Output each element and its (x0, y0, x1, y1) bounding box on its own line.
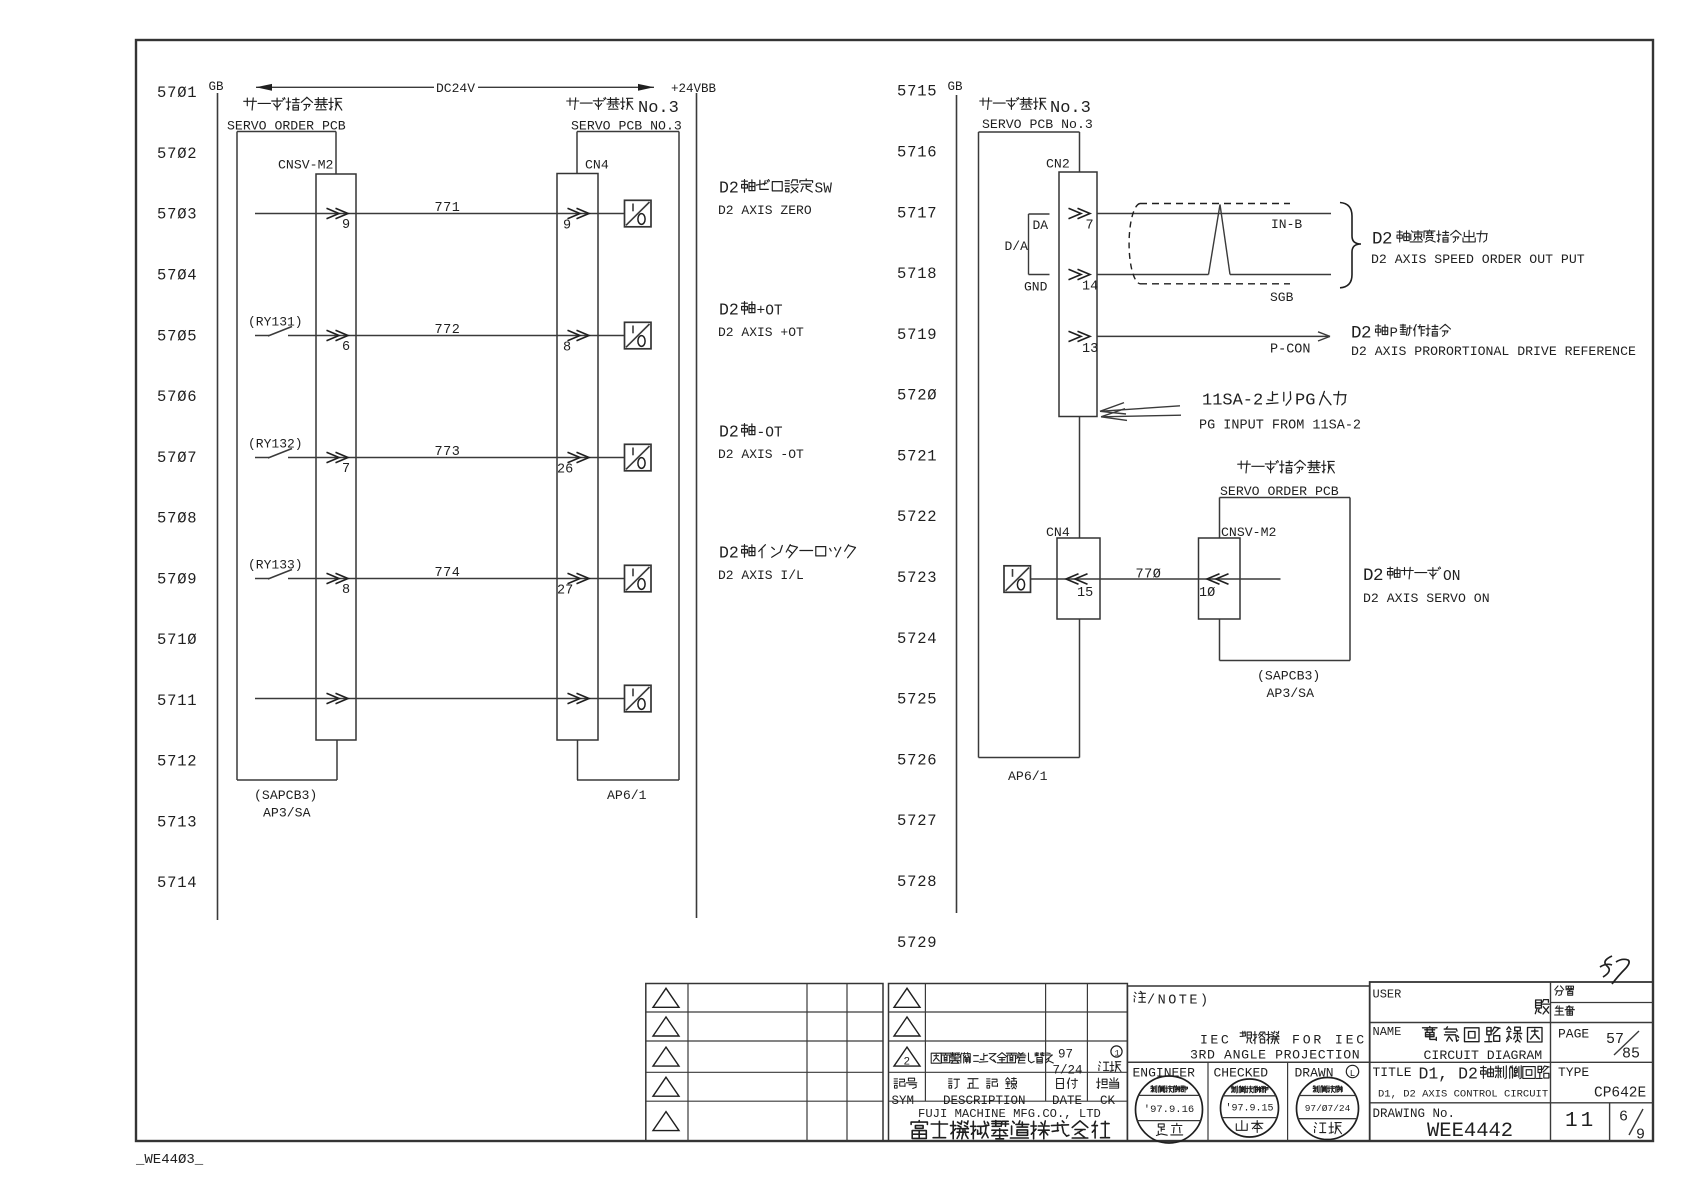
connector CNSV-M2 box (left) (316, 174, 356, 740)
board outline SAPCB3 AP3/SA (237, 132, 337, 781)
svg-text:DA: DA (1033, 218, 1049, 233)
header date (jp) (1057, 1078, 1078, 1089)
svg-text:DESCRIPTION: DESCRIPTION (943, 1094, 1026, 1108)
svg-text:2: 2 (904, 1057, 911, 1069)
svg-text:11SA-2: 11SA-2 (1202, 392, 1263, 411)
svg-text:97: 97 (1058, 1048, 1073, 1062)
svg-text:27: 27 (557, 584, 573, 599)
svg-text:(RY131): (RY131) (248, 315, 303, 330)
title name (jp) (1423, 1027, 1543, 1043)
board outline SAPCB3 right (1220, 498, 1351, 661)
svg-text:1Ø: 1Ø (1199, 586, 1215, 601)
type CP642E (1594, 1086, 1646, 1102)
svg-text:FOR IEC: FOR IEC (1292, 1033, 1367, 1048)
label D2 AXIS SERVO ON (1363, 591, 1490, 606)
svg-text:8: 8 (563, 341, 571, 356)
svg-text:D2 AXIS SPEED ORDER OUT PUT: D2 AXIS SPEED ORDER OUT PUT (1371, 252, 1585, 267)
label P-CON (1270, 343, 1311, 358)
label GND (1024, 280, 1048, 295)
connector CNSV-M2 label (left) (278, 158, 333, 173)
svg-text:14: 14 (1082, 280, 1098, 295)
svg-text:P-CON: P-CON (1270, 343, 1311, 358)
connector CN4 box (left half) (557, 174, 598, 741)
I/O symbol row y213 (625, 200, 652, 227)
svg-text:773: 773 (435, 445, 461, 460)
label AP3/SA (263, 806, 311, 821)
svg-text:CHECKED: CHECKED (1214, 1066, 1269, 1081)
title CIRCUIT DIAGRAM (1424, 1048, 1543, 1063)
pin 6 (CNSV-M2) (342, 340, 350, 355)
svg-text:6: 6 (342, 340, 350, 355)
label AP6/1 (left half) (607, 788, 647, 803)
svg-text:3RD ANGLE PROJECTION: 3RD ANGLE PROJECTION (1190, 1048, 1360, 1063)
svg-text:5717: 5717 (897, 204, 937, 222)
function label D2 AXIS +OT (719, 301, 783, 320)
revision triangle L2 (653, 1017, 679, 1036)
svg-text:ENGINEER: ENGINEER (1133, 1066, 1196, 1081)
field DRAWING No. (1373, 1107, 1456, 1121)
label servo order pcb (jp) right (1238, 460, 1335, 473)
pin 9 (CN4) (563, 219, 571, 234)
header SYM (892, 1094, 915, 1108)
label (SAPCB3) (254, 788, 317, 803)
pin 14 (CN2) (1082, 280, 1098, 295)
connector CN2 box (1059, 172, 1097, 417)
svg-text:NAME: NAME (1373, 1025, 1402, 1039)
svg-text:8: 8 (342, 583, 350, 598)
wire SGB row (1097, 274, 1331, 276)
signature columns (1208, 1062, 1288, 1141)
svg-text:'97.9.15: '97.9.15 (1225, 1103, 1273, 1115)
svg-text:No.3: No.3 (638, 99, 679, 118)
wire row y698 (255, 698, 625, 700)
label D/A (1005, 239, 1029, 254)
svg-text:SW: SW (815, 182, 833, 198)
svg-text:AP6/1: AP6/1 (607, 788, 647, 803)
svg-text:D2: D2 (719, 179, 739, 198)
svg-text:GND: GND (1024, 280, 1048, 295)
arrow into CN4 row y213 (568, 208, 590, 218)
page 57/85 (1606, 1031, 1640, 1063)
D/A converter bracket (1029, 214, 1050, 275)
svg-text:D2: D2 (719, 544, 739, 563)
svg-text:+OT: +OT (757, 304, 783, 320)
svg-text:PG INPUT FROM 11SA-2: PG INPUT FROM 11SA-2 (1199, 419, 1361, 434)
header SYM (jp) (894, 1078, 917, 1088)
svg-text:57Ø4: 57Ø4 (157, 267, 197, 285)
wire row y457 left segment (288, 457, 625, 459)
arrow into CN4 row y698 (568, 693, 590, 703)
arrow pin13 CN2 (1069, 331, 1091, 341)
note label (jp) (1134, 991, 1211, 1008)
label D2 axis servo ON (jp) (1363, 566, 1460, 586)
drawn circled-L (1346, 1065, 1358, 1079)
svg-text:'97.9.16: '97.9.16 (1144, 1104, 1194, 1116)
svg-text:CN2: CN2 (1046, 157, 1070, 172)
label SGB (1270, 290, 1294, 305)
arrow into CN4 row y457 (568, 452, 590, 462)
sheet code _WE4403_ (135, 1152, 204, 1168)
svg-text:6: 6 (1619, 1109, 1628, 1126)
title jp (1419, 1065, 1550, 1084)
svg-text:1: 1 (1115, 1049, 1120, 1059)
svg-text:TITLE: TITLE (1373, 1065, 1412, 1080)
field USER (1373, 988, 1402, 1002)
pin 8 (CNSV-M2) (342, 583, 350, 598)
wire row y578 left segment (288, 578, 625, 580)
revision triangle L5 (653, 1112, 679, 1131)
field bunsho (jp) (1555, 986, 1574, 996)
field PAGE (1558, 1027, 1589, 1042)
node GB left label (209, 80, 225, 94)
company FUJI MACHINE MFG.CO., LTD (918, 1107, 1101, 1121)
wire P-CON (1097, 335, 1330, 337)
svg-text:GB: GB (948, 80, 964, 94)
relay contact (RY132) (255, 449, 292, 459)
svg-text:SERVO PCB No.3: SERVO PCB No.3 (982, 117, 1093, 132)
header DESCRIPTION (943, 1094, 1026, 1108)
left line-number column 5701-5714 (157, 84, 197, 892)
pin 8 (CN4) (563, 341, 571, 356)
label SERVO ORDER PCB right (1220, 484, 1339, 499)
svg-text:PAGE: PAGE (1558, 1027, 1589, 1042)
revision triangle L3 (653, 1047, 679, 1066)
svg-text:IEC: IEC (1200, 1033, 1231, 1048)
svg-text:9: 9 (1636, 1127, 1645, 1144)
GB bus right vertical wire (956, 95, 958, 913)
svg-text:5718: 5718 (897, 265, 937, 283)
svg-text:5714: 5714 (157, 874, 197, 892)
title block frame (1370, 982, 1653, 1141)
svg-text:(SAPCB3): (SAPCB3) (254, 788, 317, 803)
+24VBB rail label (671, 82, 717, 96)
svg-text:771: 771 (435, 201, 461, 216)
svg-text:ON: ON (1443, 569, 1460, 585)
svg-text:D2 AXIS PRORORTIONAL DRIVE REF: D2 AXIS PRORORTIONAL DRIVE REFERENCE (1351, 344, 1636, 359)
label servo-pcb No.3 (Japanese) right (980, 98, 1091, 119)
function label D2 AXIS I/L (719, 544, 856, 563)
svg-text:5723: 5723 (897, 569, 937, 587)
sheet 11 (1565, 1110, 1596, 1133)
pin 7 (CN2) (1086, 219, 1094, 234)
connector CNSV-M2 label (right half) (1221, 525, 1276, 540)
wire row y335 left segment (288, 335, 625, 337)
svg-text:GB: GB (209, 80, 225, 94)
wire number 770 (1136, 568, 1162, 583)
brace speed-order group (1340, 203, 1361, 288)
revision table left (646, 984, 883, 1142)
svg-text:5719: 5719 (897, 326, 937, 344)
revision row 2 CK (jp) (1099, 1062, 1121, 1072)
svg-text:772: 772 (435, 323, 461, 338)
drawing number WEE4442 (1427, 1120, 1513, 1143)
field TYPE (1558, 1065, 1589, 1080)
svg-text:AP3/SA: AP3/SA (263, 806, 311, 821)
relay contact (RY133) label (248, 558, 303, 573)
svg-text:572Ø: 572Ø (897, 387, 937, 405)
svg-text:CNSV-M2: CNSV-M2 (278, 158, 333, 173)
handwritten mark 57 (1600, 956, 1629, 984)
header CHECKED (1214, 1066, 1269, 1081)
svg-text:IN-B: IN-B (1271, 217, 1302, 232)
wire number 773 (435, 445, 461, 460)
svg-text:5727: 5727 (897, 812, 937, 830)
svg-text:AP6/1: AP6/1 (1008, 769, 1048, 784)
svg-text:CN4: CN4 (585, 158, 609, 173)
svg-text:D2: D2 (719, 301, 739, 320)
svg-text:USER: USER (1373, 988, 1402, 1002)
svg-text:D1, D2 AXIS CONTROL CIRCUIT: D1, D2 AXIS CONTROL CIRCUIT (1378, 1089, 1548, 1101)
svg-text:D2: D2 (1351, 324, 1371, 344)
revision row 2 description (jp) (931, 1053, 1053, 1064)
svg-text:WEE4442: WEE4442 (1427, 1120, 1513, 1143)
svg-text:7/24: 7/24 (1053, 1064, 1083, 1078)
svg-text:5721: 5721 (897, 447, 937, 465)
field seiban (jp) (1555, 1006, 1575, 1016)
svg-text:57Ø1: 57Ø1 (157, 84, 197, 102)
note box (1127, 986, 1369, 1141)
svg-text:9: 9 (563, 219, 571, 234)
svg-text:P: P (1390, 326, 1398, 342)
cable shield (dashed) (1129, 204, 1290, 284)
label PG INPUT FROM 11SA-2 (1199, 419, 1361, 434)
label AP6/1 (right half) (1008, 769, 1048, 784)
right line-number column 5715-5729 (897, 83, 937, 952)
field NAME (1373, 1025, 1402, 1039)
label 11SA-2 yori PG input (jp) (1202, 391, 1346, 410)
DC24V label (436, 81, 475, 96)
I/O symbol row y698 (625, 685, 652, 712)
svg-text:FUJI MACHINE MFG.CO., LTD: FUJI MACHINE MFG.CO., LTD (918, 1107, 1101, 1121)
svg-text:D2: D2 (1363, 566, 1383, 586)
svg-text:CP642E: CP642E (1594, 1086, 1646, 1102)
revision table main (889, 984, 1128, 1142)
svg-text:D2 AXIS SERVO ON: D2 AXIS SERVO ON (1363, 591, 1490, 606)
relay contact (RY131) label (248, 315, 303, 330)
sheet 6/9 (1619, 1109, 1645, 1144)
note IEC line (1200, 1031, 1367, 1047)
svg-text:774: 774 (435, 566, 461, 581)
arrow pin15 CN4 (left-pointing) (1066, 574, 1088, 584)
function label D2 AXIS ZERO (en) (718, 203, 812, 218)
label IN-B (1271, 217, 1302, 232)
arrow into CNSV-M2 row y457 (327, 452, 349, 462)
svg-text:5715: 5715 (897, 83, 937, 101)
svg-text:13: 13 (1082, 342, 1098, 357)
header DATE (1052, 1094, 1082, 1108)
wire number 771 (435, 201, 461, 216)
label D2 AXIS PRORORTIONAL DRIVE REFERENCE (1351, 344, 1636, 359)
wire IN-B row (1097, 213, 1331, 215)
connector CN2 label (1046, 157, 1070, 172)
svg-text:D2 AXIS -OT: D2 AXIS -OT (718, 447, 804, 462)
svg-text:26: 26 (557, 463, 573, 478)
svg-text:/NOTE): /NOTE) (1147, 994, 1211, 1009)
relay contact (RY131) (255, 327, 292, 337)
stamp CHECKED (1221, 1079, 1279, 1137)
svg-text:7: 7 (1086, 219, 1094, 234)
svg-text:TYPE: TYPE (1558, 1065, 1589, 1080)
svg-text:5724: 5724 (897, 630, 937, 648)
svg-text:DC24V: DC24V (436, 81, 475, 96)
label DA (1033, 218, 1049, 233)
svg-text:D2: D2 (719, 423, 739, 442)
GB bus left vertical wire (217, 93, 219, 920)
svg-text:AP3/SA: AP3/SA (1267, 686, 1315, 701)
+24VBB rail vertical wire (696, 93, 698, 918)
connector CN4 box (right half) (1057, 538, 1100, 619)
arrow into CNSV-M2 row y578 (327, 573, 349, 583)
label (SAPCB3) right (1257, 669, 1320, 684)
arrow into CNSV-M2 row y698 (327, 693, 349, 703)
svg-text:57Ø3: 57Ø3 (157, 206, 197, 224)
pin 27 (CN4) (557, 584, 573, 599)
svg-text:D/A: D/A (1005, 239, 1029, 254)
svg-text:57Ø6: 57Ø6 (157, 388, 197, 406)
svg-text:57Ø9: 57Ø9 (157, 570, 197, 588)
svg-text:11: 11 (1565, 1110, 1596, 1133)
header DRAWN (1295, 1066, 1334, 1081)
stamp ENGINEER (1136, 1076, 1203, 1143)
svg-text:SGB: SGB (1270, 290, 1294, 305)
relay contact (RY133) (255, 570, 292, 580)
pin 26 (CN4) (557, 463, 573, 478)
label SERVO PCB No.3 right (982, 117, 1093, 132)
pin 13 (CN2) (1082, 342, 1098, 357)
svg-text:57Ø7: 57Ø7 (157, 449, 197, 467)
pin 15 (CN4) (1077, 586, 1093, 601)
label servo-order-pcb (Japanese) (244, 97, 342, 110)
I/O symbol row y457 (625, 444, 652, 471)
arrow into CNSV-M2 row y335 (327, 330, 349, 340)
arrow pin10 CNSV-M2 (left-pointing) (1207, 574, 1229, 584)
connector CN4 label (right half) (1046, 525, 1070, 540)
svg-text:+24VBB: +24VBB (671, 82, 717, 96)
svg-text:D1, D2: D1, D2 (1419, 1065, 1478, 1084)
arrow into CN4 row y335 (568, 330, 590, 340)
field tono (jp) (1535, 1000, 1549, 1014)
svg-text:57Ø2: 57Ø2 (157, 145, 197, 163)
PG input arrows (1100, 403, 1181, 421)
function label D2 AXIS -OT (en) (718, 447, 804, 462)
arrow pin14 CN2 (1069, 269, 1091, 279)
svg-text:_WE44Ø3_: _WE44Ø3_ (135, 1152, 204, 1168)
wire 770 segment A (1031, 578, 1058, 580)
arrow into CNSV-M2 row y213 (327, 208, 349, 218)
svg-text:CK: CK (1100, 1094, 1116, 1108)
svg-text:D2 AXIS I/L: D2 AXIS I/L (718, 568, 804, 583)
pin 10 (CNSV-M2) (1199, 586, 1215, 601)
wire 770 segment B (1057, 578, 1281, 580)
svg-text:7: 7 (342, 462, 350, 477)
svg-text:D2 AXIS +OT: D2 AXIS +OT (718, 325, 804, 340)
svg-text:5729: 5729 (897, 934, 937, 952)
DC24V span arrow (256, 84, 654, 91)
svg-text:DRAWING No.: DRAWING No. (1373, 1107, 1456, 1121)
header ENGINEER (1133, 1066, 1196, 1081)
function label D2 AXIS ZERO (719, 179, 832, 198)
svg-text:No.3: No.3 (1050, 99, 1091, 118)
svg-text:15: 15 (1077, 586, 1093, 601)
I/O symbol row y578 (625, 565, 652, 592)
svg-text:5726: 5726 (897, 751, 937, 769)
label D2 axis speed order (jp) (1372, 230, 1487, 250)
label D2 AXIS SPEED ORDER OUT PUT (1371, 252, 1585, 267)
revision triangle 2 (894, 1047, 920, 1069)
twisted-pair crossover symbol (1209, 205, 1231, 275)
node GB right label (948, 80, 964, 94)
I/O symbol servo-on (1004, 566, 1031, 593)
label AP3/SA right (1267, 686, 1315, 701)
svg-text:57Ø5: 57Ø5 (157, 327, 197, 345)
pin 7 (CNSV-M2) (342, 462, 350, 477)
svg-text:(RY132): (RY132) (248, 437, 303, 452)
company name (jp) (911, 1121, 1109, 1139)
header description (jp) (949, 1078, 1017, 1089)
connector CN4 label (left half) (585, 158, 609, 173)
pin 9 (CNSV-M2) (342, 218, 350, 233)
relay contact (RY132) label (248, 437, 303, 452)
wire number 774 (435, 566, 461, 581)
svg-text:CIRCUIT DIAGRAM: CIRCUIT DIAGRAM (1424, 1048, 1543, 1063)
function label D2 AXIS -OT (719, 423, 783, 442)
svg-text:77Ø: 77Ø (1136, 568, 1162, 583)
svg-text:DATE: DATE (1052, 1094, 1082, 1108)
svg-text:PG: PG (1295, 392, 1315, 411)
svg-text:5722: 5722 (897, 508, 937, 526)
field TITLE (1373, 1065, 1412, 1080)
revision triangle M1 (894, 988, 920, 1007)
svg-text:5716: 5716 (897, 144, 937, 162)
svg-text:57Ø8: 57Ø8 (157, 510, 197, 528)
stamp DRAWN (1297, 1078, 1359, 1140)
svg-text:-OT: -OT (757, 426, 783, 442)
header CK (jp) (1097, 1078, 1119, 1089)
label servo-pcb (Japanese) left-half (567, 98, 679, 119)
svg-text:5711: 5711 (157, 692, 197, 710)
revision triangle M2 (894, 1017, 920, 1036)
board outline AP6/1 (right half) (979, 132, 1080, 758)
revision triangle L4 (653, 1077, 679, 1096)
svg-text:5725: 5725 (897, 691, 937, 709)
connector CNSV-M2 box (right half) (1199, 538, 1241, 619)
svg-text:97/Ø7/24: 97/Ø7/24 (1305, 1103, 1351, 1114)
arrow pin7 CN2 (1069, 208, 1091, 218)
label SERVO PCB NO.3 left-half (571, 119, 682, 134)
svg-text:9: 9 (342, 218, 350, 233)
board outline AP6/1 (left half) (577, 132, 679, 781)
svg-text:5712: 5712 (157, 753, 197, 771)
svg-text:5713: 5713 (157, 813, 197, 831)
I/O symbol row y335 (625, 322, 652, 349)
label D2 axis P drive (jp) (1351, 324, 1451, 344)
svg-text:85: 85 (1622, 1046, 1640, 1063)
revision mark circled-1 (1111, 1046, 1122, 1059)
function label D2 AXIS I/L (en) (718, 568, 804, 583)
svg-text:(RY133): (RY133) (248, 558, 303, 573)
svg-text:5728: 5728 (897, 873, 937, 891)
note 3RD ANGLE PROJECTION (1190, 1048, 1360, 1063)
wire row y213 (255, 213, 625, 215)
svg-text:L: L (1350, 1069, 1355, 1079)
header CK (1100, 1094, 1116, 1108)
svg-text:571Ø: 571Ø (157, 631, 197, 649)
svg-text:(SAPCB3): (SAPCB3) (1257, 669, 1320, 684)
label SERVO ORDER PCB (227, 119, 346, 134)
svg-text:D2 AXIS ZERO: D2 AXIS ZERO (718, 203, 812, 218)
revision row 2 date (1053, 1048, 1083, 1078)
revision triangle L1 (653, 988, 679, 1007)
